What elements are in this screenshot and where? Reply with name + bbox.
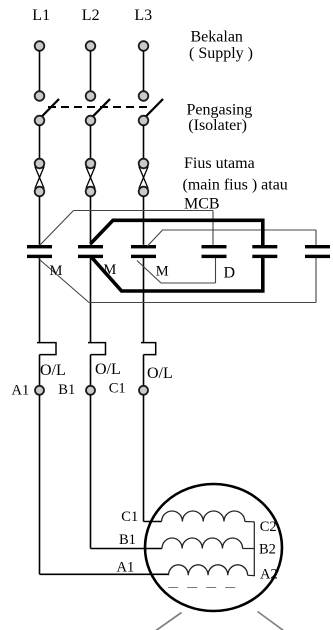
svg-text:M: M xyxy=(156,264,169,280)
svg-text:A1: A1 xyxy=(12,383,30,399)
svg-text:O/L: O/L xyxy=(95,361,121,378)
svg-text:L1: L1 xyxy=(32,7,50,24)
svg-text:L2: L2 xyxy=(82,7,100,24)
svg-text:(Isolater): (Isolater) xyxy=(188,117,247,134)
svg-text:C1: C1 xyxy=(109,381,126,397)
svg-text:( Supply ): ( Supply ) xyxy=(189,45,253,62)
svg-text:A1: A1 xyxy=(117,559,135,575)
svg-text:(main fius ) atau: (main fius ) atau xyxy=(183,177,288,194)
svg-text:B1: B1 xyxy=(119,532,136,548)
svg-text:O/L: O/L xyxy=(147,365,173,382)
svg-text:C1: C1 xyxy=(121,509,138,525)
svg-text:M: M xyxy=(50,263,63,279)
svg-text:O/L: O/L xyxy=(40,362,66,379)
svg-text:D: D xyxy=(224,265,236,282)
svg-text:MCB: MCB xyxy=(184,196,220,213)
svg-text:Fius utama: Fius utama xyxy=(184,155,255,172)
svg-text:L3: L3 xyxy=(134,7,152,24)
svg-text:Pengasing: Pengasing xyxy=(187,101,253,118)
svg-text:Bekalan: Bekalan xyxy=(191,29,243,46)
svg-text:A2: A2 xyxy=(260,567,278,583)
svg-text:M: M xyxy=(103,262,116,278)
svg-text:C2: C2 xyxy=(260,519,277,535)
svg-text:B2: B2 xyxy=(259,541,276,557)
svg-text:B1: B1 xyxy=(58,382,75,398)
